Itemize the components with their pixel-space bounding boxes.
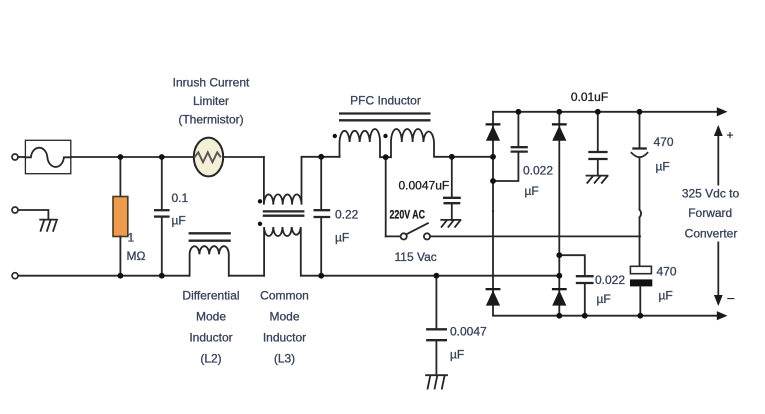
svg-text:470: 470	[657, 265, 677, 279]
svg-text:µF: µF	[450, 348, 464, 362]
svg-text:Mode: Mode	[269, 310, 299, 324]
svg-text:0.22: 0.22	[335, 208, 359, 222]
svg-text:Converter: Converter	[685, 227, 738, 241]
svg-text:0.01uF: 0.01uF	[571, 90, 608, 104]
svg-text:325 Vdc to: 325 Vdc to	[682, 187, 740, 201]
svg-text:µF: µF	[335, 231, 349, 245]
svg-text:µF: µF	[659, 289, 673, 303]
svg-text:Forward: Forward	[688, 206, 732, 220]
svg-text:Mode: Mode	[196, 310, 226, 324]
svg-text:PFC Inductor: PFC Inductor	[350, 94, 421, 108]
svg-text:0.0047: 0.0047	[450, 325, 487, 339]
svg-text:(L3): (L3)	[274, 352, 295, 366]
svg-text:220V AC: 220V AC	[390, 208, 426, 222]
svg-text:1: 1	[128, 231, 135, 245]
svg-text:µF: µF	[597, 292, 611, 306]
svg-text:115 Vac: 115 Vac	[395, 250, 437, 264]
svg-text:–: –	[728, 291, 735, 305]
svg-text:0.022: 0.022	[595, 273, 625, 287]
svg-text:Common: Common	[260, 289, 309, 303]
svg-text:Differential: Differential	[182, 289, 239, 303]
svg-text:Inductor: Inductor	[263, 331, 306, 345]
svg-text:470: 470	[654, 135, 674, 149]
svg-text:Inrush Current: Inrush Current	[173, 76, 250, 90]
svg-text:0.0047uF: 0.0047uF	[399, 179, 450, 193]
svg-text:0.1: 0.1	[172, 191, 189, 205]
svg-text:MΩ: MΩ	[127, 249, 146, 263]
svg-text:µF: µF	[656, 160, 670, 174]
svg-text:0.022: 0.022	[523, 164, 553, 178]
svg-text:(L2): (L2)	[200, 352, 221, 366]
svg-text:(Thermistor): (Thermistor)	[178, 113, 243, 127]
svg-text:+: +	[727, 128, 734, 142]
svg-text:µF: µF	[172, 214, 186, 228]
svg-text:Inductor: Inductor	[189, 331, 232, 345]
svg-text:µF: µF	[525, 184, 539, 198]
svg-text:Limiter: Limiter	[193, 94, 229, 108]
